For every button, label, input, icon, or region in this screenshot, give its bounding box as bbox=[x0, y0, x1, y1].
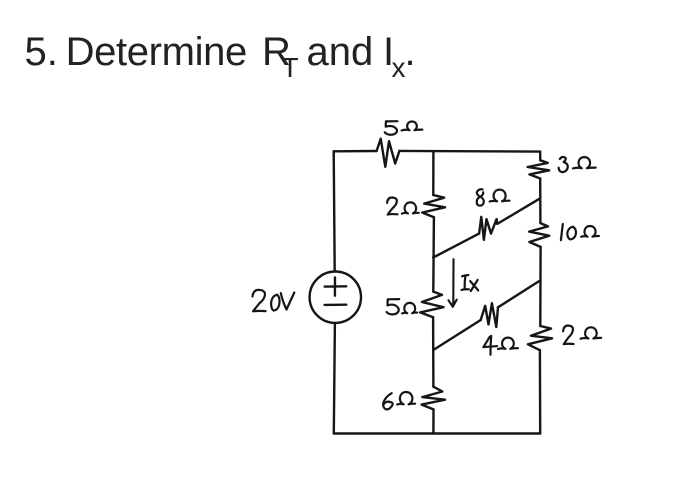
label 2-ohm (R2) digit 2 bbox=[387, 198, 397, 215]
label Ix letter I bbox=[462, 275, 469, 290]
resistor R2 2-ohm zigzag (middle) bbox=[422, 195, 445, 217]
label 4-ohm (R7) digit 4 bbox=[483, 336, 497, 355]
label 5-ohm (R1) omega bbox=[402, 122, 423, 131]
resistor R5 10-ohm zigzag bbox=[529, 223, 549, 247]
wire right vertical stub top bbox=[539, 152, 541, 161]
label 6-ohm (R9) omega bbox=[397, 392, 415, 405]
resistor R9 6-ohm zigzag (middle bottom) bbox=[422, 387, 445, 410]
wire 4-ohm diagonal lower bbox=[434, 320, 481, 350]
label 5-ohm (R6) omega bbox=[402, 303, 417, 314]
wire 8-ohm diagonal upper bbox=[497, 198, 540, 224]
label 20V letter V bbox=[281, 293, 295, 310]
label 2-ohm (R8) omega bbox=[581, 327, 602, 338]
wire 4-ohm diagonal upper bbox=[498, 280, 540, 307]
source plus sign bbox=[325, 277, 347, 295]
label 2-ohm (R2) omega bbox=[402, 202, 419, 213]
voltage source V1 circle bbox=[310, 272, 361, 323]
wire right vertical segment bbox=[539, 179, 542, 224]
label 8-ohm (R3) digit 8 bbox=[477, 189, 484, 205]
resistor R7 4-ohm zigzag (diagonal) bbox=[481, 303, 498, 327]
wire left lower vertical bbox=[334, 323, 335, 434]
label 5-ohm (R6) digit 5 bbox=[387, 299, 400, 314]
label 20V digit 0 bbox=[271, 295, 279, 311]
wire middle vertical top bbox=[432, 151, 435, 195]
resistor R6 5-ohm zigzag (middle) bbox=[420, 292, 443, 318]
wire top-left horizontal bbox=[334, 150, 377, 153]
source minus sign bbox=[325, 304, 347, 307]
label Ix letter x bbox=[470, 280, 478, 291]
resistor R4 3-ohm zigzag bbox=[528, 160, 550, 178]
wire bottom horizontal bbox=[334, 432, 540, 434]
wire middle vertical segment bbox=[432, 217, 435, 291]
label 5-ohm (R1) digit 5 bbox=[385, 121, 398, 135]
label 10-ohm (R5) digit 1 bbox=[561, 224, 563, 240]
resistor R3 8-ohm zigzag (diagonal) bbox=[479, 217, 497, 240]
label 6-ohm (R9) digit 6 bbox=[383, 393, 393, 409]
label 10-ohm (R5) digit 0 bbox=[567, 227, 576, 240]
current arrow Ix bbox=[448, 259, 456, 307]
label 4-ohm (R7) omega bbox=[498, 338, 518, 349]
wire middle vertical segment bbox=[432, 317, 435, 387]
wire top-right horizontal bbox=[400, 150, 541, 153]
resistor R1 5-ohm zigzag (top) bbox=[377, 139, 400, 167]
label 2-ohm (R8) digit 2 bbox=[563, 326, 574, 345]
label 3-ohm (R4) digit 3 bbox=[559, 157, 568, 172]
resistor R8 2-ohm zigzag (right) bbox=[528, 326, 552, 350]
label 8-ohm (R3) omega bbox=[490, 190, 510, 202]
label 10-ohm (R5) omega bbox=[581, 226, 599, 237]
wire right vertical segment bbox=[539, 247, 542, 326]
label 20V digit 2 bbox=[253, 290, 266, 312]
wire left upper vertical bbox=[334, 151, 335, 271]
wire 8-ohm diagonal lower bbox=[433, 234, 479, 258]
wire right vertical segment bottom bbox=[539, 350, 542, 433]
label 3-ohm (R4) omega bbox=[573, 157, 596, 168]
wire middle vertical bottom bbox=[432, 409, 435, 433]
